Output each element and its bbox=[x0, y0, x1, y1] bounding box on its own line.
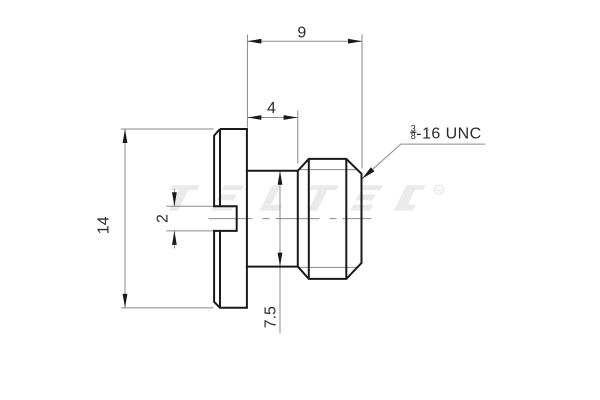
svg-text:2: 2 bbox=[155, 214, 172, 223]
thread minor diameter line top bbox=[298, 169, 358, 171]
dimension 2 extension stub bottom bbox=[167, 230, 214, 232]
dimension 14 arrow bottom bbox=[123, 294, 128, 308]
watermark letter E2 bbox=[350, 185, 383, 210]
slot bbox=[213, 206, 237, 231]
leader arrow bbox=[362, 167, 374, 178]
dimension 4 extension line right bbox=[297, 111, 299, 164]
dimension 4 arrow right bbox=[284, 115, 298, 120]
dimension 4 line bbox=[247, 117, 297, 119]
leader line for thread callout bbox=[362, 144, 485, 179]
thread minor diameter line bottom bbox=[298, 266, 358, 268]
body top edge bbox=[247, 170, 298, 172]
dimension 9 line bbox=[247, 40, 362, 42]
dimension 7.5 arrow top bbox=[278, 171, 283, 185]
thread outline bbox=[298, 159, 362, 279]
head chamfer transition line upper bbox=[219, 129, 221, 206]
svg-text:9: 9 bbox=[297, 24, 306, 41]
centerline bbox=[209, 218, 372, 220]
dimension 2 arrow bottom bbox=[172, 231, 177, 245]
dimension 2 extension stub top bbox=[167, 205, 214, 207]
dimension 7.5 line bbox=[279, 171, 281, 333]
watermark letter T2 bbox=[299, 185, 339, 211]
watermark letter E1 bbox=[212, 185, 245, 210]
watermark letter L bbox=[260, 185, 293, 210]
dimension 2 leader line bottom bbox=[173, 231, 175, 249]
svg-text:4: 4 bbox=[267, 100, 276, 117]
thread callout text 3/8-16 UNC bbox=[410, 123, 482, 142]
svg-text:R: R bbox=[436, 186, 442, 195]
watermark registered mark bbox=[434, 185, 443, 194]
dimension 14 extension line bottom bbox=[121, 307, 214, 309]
watermark letter T1 bbox=[160, 185, 200, 211]
head outline bbox=[214, 129, 247, 308]
dimension 9 arrow right bbox=[348, 39, 362, 44]
thread chamfer transition line left bbox=[308, 159, 310, 279]
dimension 4 arrow left bbox=[247, 115, 261, 120]
svg-text:14: 14 bbox=[95, 216, 112, 234]
dimension 14 line bbox=[124, 129, 126, 308]
dimension 9 arrow left bbox=[247, 39, 261, 44]
svg-text:7.5: 7.5 bbox=[263, 306, 280, 328]
watermark TELTEC bbox=[160, 185, 444, 211]
watermark letter C bbox=[394, 185, 426, 210]
dimension 14 arrow top bbox=[123, 129, 128, 143]
svg-text:8: 8 bbox=[411, 131, 416, 141]
dimension 2 leader line top bbox=[173, 189, 175, 206]
thread chamfer transition line right bbox=[345, 159, 347, 279]
dimension 14 extension line top bbox=[121, 128, 214, 130]
dimension 9 extension line right bbox=[361, 35, 363, 169]
dimension 2 arrow top bbox=[172, 192, 177, 206]
head chamfer transition line lower bbox=[219, 231, 221, 308]
svg-text:-16 UNC: -16 UNC bbox=[416, 126, 481, 143]
dimension 9 extension line left bbox=[246, 35, 248, 128]
dimension 7.5 arrow bottom bbox=[278, 253, 283, 267]
body bottom edge bbox=[247, 266, 298, 268]
